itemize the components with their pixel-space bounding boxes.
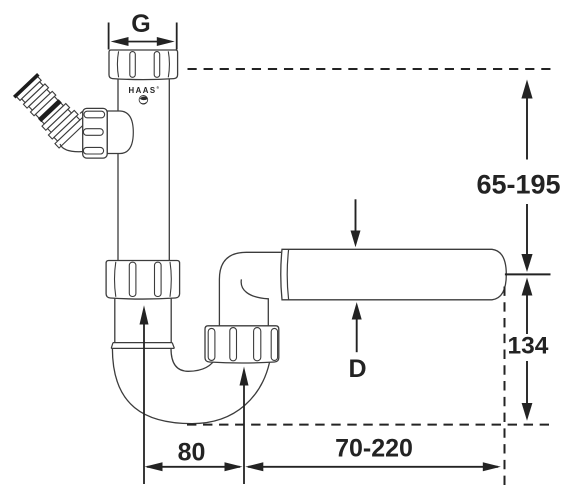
top dashed reference line: [188, 68, 551, 70]
black band on nipple: [38, 99, 62, 122]
vertical inlet pipe: [118, 79, 169, 261]
arrow to outlet nut centre (80 right / 70-220 left): [240, 367, 249, 485]
HAAS brand text: [128, 86, 159, 95]
svg-text:D: D: [348, 355, 366, 383]
svg-text:80: 80: [178, 439, 206, 467]
svg-text:G: G: [131, 10, 150, 38]
bottom dashed reference line: [187, 424, 549, 426]
svg-text:134: 134: [508, 333, 549, 360]
arrow down to pipe top (D upper): [351, 199, 361, 247]
hose barb connector (45 deg corrugated nipple): [12, 73, 86, 148]
vertical dashed reference line: [504, 287, 506, 486]
outlet elbow (white body over U-bend): [219, 252, 281, 330]
side branch dome (elbow body): [107, 111, 133, 154]
pipe joint band above U-bend: [111, 343, 174, 349]
dimension 80: [145, 439, 243, 472]
dimension 134: [508, 278, 549, 421]
dimension 70-220: [245, 435, 500, 472]
arrow up to pipe bottom with label D: [348, 302, 366, 383]
neck curve joining hose to side nut: [60, 111, 85, 152]
U-bend outer curve: [112, 348, 269, 423]
side branch nut: [83, 108, 108, 158]
arrow to inlet pipe centre (80 left): [140, 305, 149, 484]
top union nut (G thread): [109, 50, 178, 80]
HAAS logo roundel: [139, 96, 148, 105]
svg-text:70-220: 70-220: [335, 435, 413, 463]
lower pipe edges (below middle nut): [115, 299, 171, 343]
svg-text:HAAS: HAAS: [128, 86, 156, 95]
G extension ticks: [109, 23, 177, 50]
outlet union nut (on elbow): [205, 326, 279, 363]
telescopic horizontal outlet pipe: [281, 249, 507, 299]
dimension 65-195: [476, 80, 560, 275]
U-bend inner curve: [171, 348, 217, 371]
middle union nut: [106, 261, 180, 300]
svg-text:65-195: 65-195: [476, 170, 560, 200]
black end cap of hose nipple: [14, 74, 38, 97]
G double arrow: [111, 37, 175, 46]
